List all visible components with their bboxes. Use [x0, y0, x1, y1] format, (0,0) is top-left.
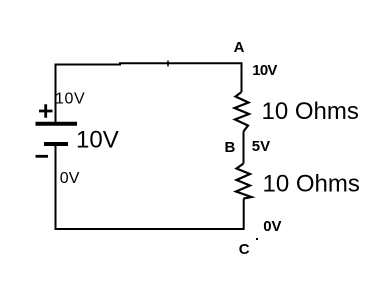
svg-text:10 Ohms: 10 Ohms: [262, 98, 359, 125]
svg-text:0V: 0V: [60, 170, 80, 187]
svg-text:0V: 0V: [263, 218, 281, 235]
svg-text:C: C: [239, 241, 250, 258]
svg-text:B: B: [225, 139, 236, 156]
svg-text:10V: 10V: [76, 127, 119, 154]
svg-text:5V: 5V: [252, 138, 270, 155]
svg-text:10V: 10V: [55, 91, 85, 108]
svg-text:A: A: [234, 39, 245, 56]
svg-text:10V: 10V: [252, 62, 277, 79]
svg-text:10 Ohms: 10 Ohms: [263, 170, 360, 197]
